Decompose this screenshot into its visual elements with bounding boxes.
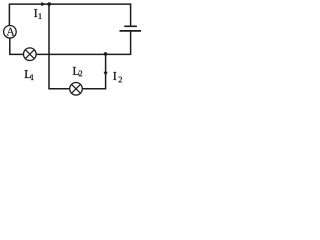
lamp L2 circle <box>70 83 83 96</box>
node junction top <box>47 2 51 6</box>
label I2 subscript 2 <box>119 77 122 83</box>
wire branch run: left vertical, bottom horizontal, right vertical <box>49 4 106 89</box>
arrow I2 on branch right vertical <box>104 72 108 77</box>
lamp L2 cross <box>72 84 81 93</box>
label L2 letter L <box>73 67 79 75</box>
wire lower run: battery bottom stub, middle horizontal, left lower vertical <box>10 31 131 54</box>
ammeter circle <box>4 26 17 39</box>
label I1 subscript 1 <box>39 13 42 19</box>
label I2 letter I <box>113 72 116 80</box>
battery long plate <box>120 30 142 32</box>
label L1 letter L <box>25 70 31 78</box>
ammeter letter A <box>6 28 14 36</box>
wire top run: left vertical, top horizontal, battery top stub <box>9 4 130 26</box>
node junction middle <box>104 52 108 56</box>
label L1 subscript 1 <box>31 74 34 80</box>
battery short plate <box>124 25 137 27</box>
lamp L1 circle <box>24 48 37 61</box>
lamp L1 cross <box>25 50 34 59</box>
label L2 subscript 2 <box>79 71 82 77</box>
arrow I1 on top wire <box>41 2 45 6</box>
label I1 letter I <box>34 9 37 17</box>
